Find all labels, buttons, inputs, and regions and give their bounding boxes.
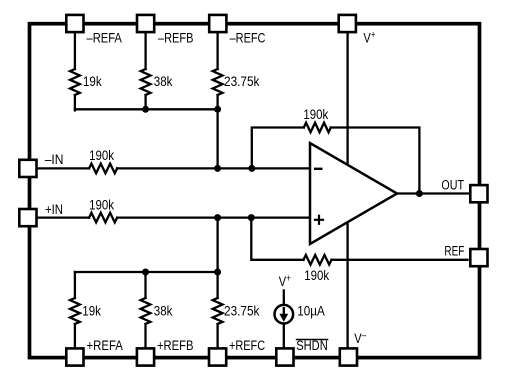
wire -REFC lead upper (216, 33, 218, 69)
pin pad REF (470, 249, 487, 266)
wire -REFC lead lower continuing to -IN line (216, 95, 218, 168)
svg-text:10µA: 10µA (297, 302, 325, 318)
svg-text:23.75k: 23.75k (224, 302, 260, 318)
op-amp U1 triangle (310, 143, 397, 244)
wire current source lower lead to SHDN pad (283, 324, 285, 349)
junction dot bottom bus / +REFB (142, 269, 149, 276)
wire -REFB lead upper (144, 33, 146, 69)
wire -REFA lead upper (74, 33, 76, 69)
pin pad -REFC (209, 15, 226, 32)
resistor R7 190k (bottom feedback) (304, 255, 332, 265)
wire +IN tap down to bottom bus (216, 218, 218, 272)
pin pad -REFB (137, 15, 154, 32)
wire +REFB lead lower (144, 324, 146, 348)
pin pad -REFA (66, 15, 83, 32)
junction dot +IN line / bottom feedback tap (248, 214, 255, 221)
svg-text:–REFA: –REFA (87, 29, 123, 46)
wire +REFA lead lower (74, 324, 76, 348)
current source I1 arrow (279, 307, 288, 322)
resistor R8 19k (bottom, +REFA) (70, 298, 80, 324)
svg-text:REF: REF (444, 243, 464, 259)
wire -IN line right segment to op-amp (117, 167, 311, 169)
junction dot -IN line / -REFC tap (214, 165, 221, 172)
label SHDN overline (296, 339, 329, 341)
wire +REFC lead lower (216, 324, 218, 348)
wire -IN line left segment (36, 167, 89, 169)
resistor R10 23.75k (bottom, +REFC) (213, 298, 223, 324)
wire top feedback right segment down to output (331, 128, 420, 194)
pin pad OUT (470, 185, 487, 202)
svg-text:+REFB: +REFB (157, 337, 193, 354)
junction dot +IN line / +REFC tap (214, 214, 221, 221)
wire bottom reference bus (75, 271, 218, 273)
junction dot output node (416, 190, 423, 197)
resistor R6 190k (top feedback) (304, 123, 331, 133)
pin pad +IN (19, 209, 36, 226)
wire +REFB lead upper (144, 272, 146, 298)
wire +IN line left segment (36, 216, 89, 218)
svg-text:38k: 38k (154, 73, 173, 89)
svg-text:–IN: –IN (45, 151, 64, 167)
resistor R5 190k (+IN input) (89, 213, 117, 223)
pin pad V- (340, 348, 357, 365)
svg-text:OUT: OUT (441, 177, 464, 193)
op-amp U1 plus input symbol (314, 215, 324, 225)
wire top feedback tap up from -IN line (252, 128, 304, 169)
wire V+ pad down to op-amp top (346, 33, 348, 170)
pin pad SHDN (276, 348, 293, 365)
wire op-amp output to OUT pad (397, 192, 469, 194)
wire top reference bus (75, 108, 218, 110)
svg-text:23.75k: 23.75k (224, 73, 260, 89)
svg-text:–REFC: –REFC (230, 30, 266, 46)
wire -REFA lead lower to bus (74, 95, 76, 110)
svg-text:38k: 38k (154, 302, 173, 318)
current source I1 circle (275, 305, 294, 324)
svg-text:+REFA: +REFA (87, 337, 124, 354)
junction dot top bus / -REFB (142, 106, 149, 113)
junction dot -IN line / feedback tap (248, 165, 255, 172)
resistor R9 38k (bottom, +REFB) (141, 298, 151, 324)
junction dot bottom bus / +REFC (214, 269, 221, 276)
resistor R1 19k (top, -REFA) (70, 69, 80, 95)
wire +REFA lead upper (74, 272, 76, 298)
svg-text:+REFC: +REFC (229, 338, 265, 354)
wire op-amp bottom down to V- pad (346, 218, 348, 348)
outer supply rail border wire (30, 24, 480, 358)
pin pad +REFA (66, 348, 83, 365)
svg-text:19k: 19k (83, 73, 102, 89)
resistor R4 190k (-IN input) (89, 164, 117, 174)
wire -REFB lead lower to bus (144, 95, 146, 110)
svg-text:190k: 190k (303, 106, 328, 123)
pin pad -IN (19, 160, 36, 177)
op-amp U1 minus input symbol (314, 168, 323, 170)
pin pad V+ (339, 15, 356, 32)
pin pad +REFB (137, 348, 154, 365)
svg-text:190k: 190k (89, 147, 114, 164)
wire bottom feedback tap down from +IN line (251, 218, 303, 260)
wire bottom feedback right segment to REF pad (332, 259, 468, 261)
wire +IN line right segment to op-amp (117, 216, 311, 218)
svg-text:190k: 190k (89, 196, 114, 213)
resistor R3 23.75k (top, -REFC) (213, 69, 223, 95)
wire current source upper lead (283, 291, 285, 305)
svg-text:19k: 19k (82, 302, 101, 318)
svg-text:+IN: +IN (45, 201, 63, 218)
svg-text:–REFB: –REFB (158, 30, 193, 46)
resistor R2 38k (top, -REFB) (141, 69, 151, 95)
wire +REFC lead upper (216, 272, 218, 298)
junction dot top bus / -REFC (214, 106, 221, 113)
svg-text:190k: 190k (304, 267, 329, 284)
pin pad +REFC (209, 348, 226, 365)
